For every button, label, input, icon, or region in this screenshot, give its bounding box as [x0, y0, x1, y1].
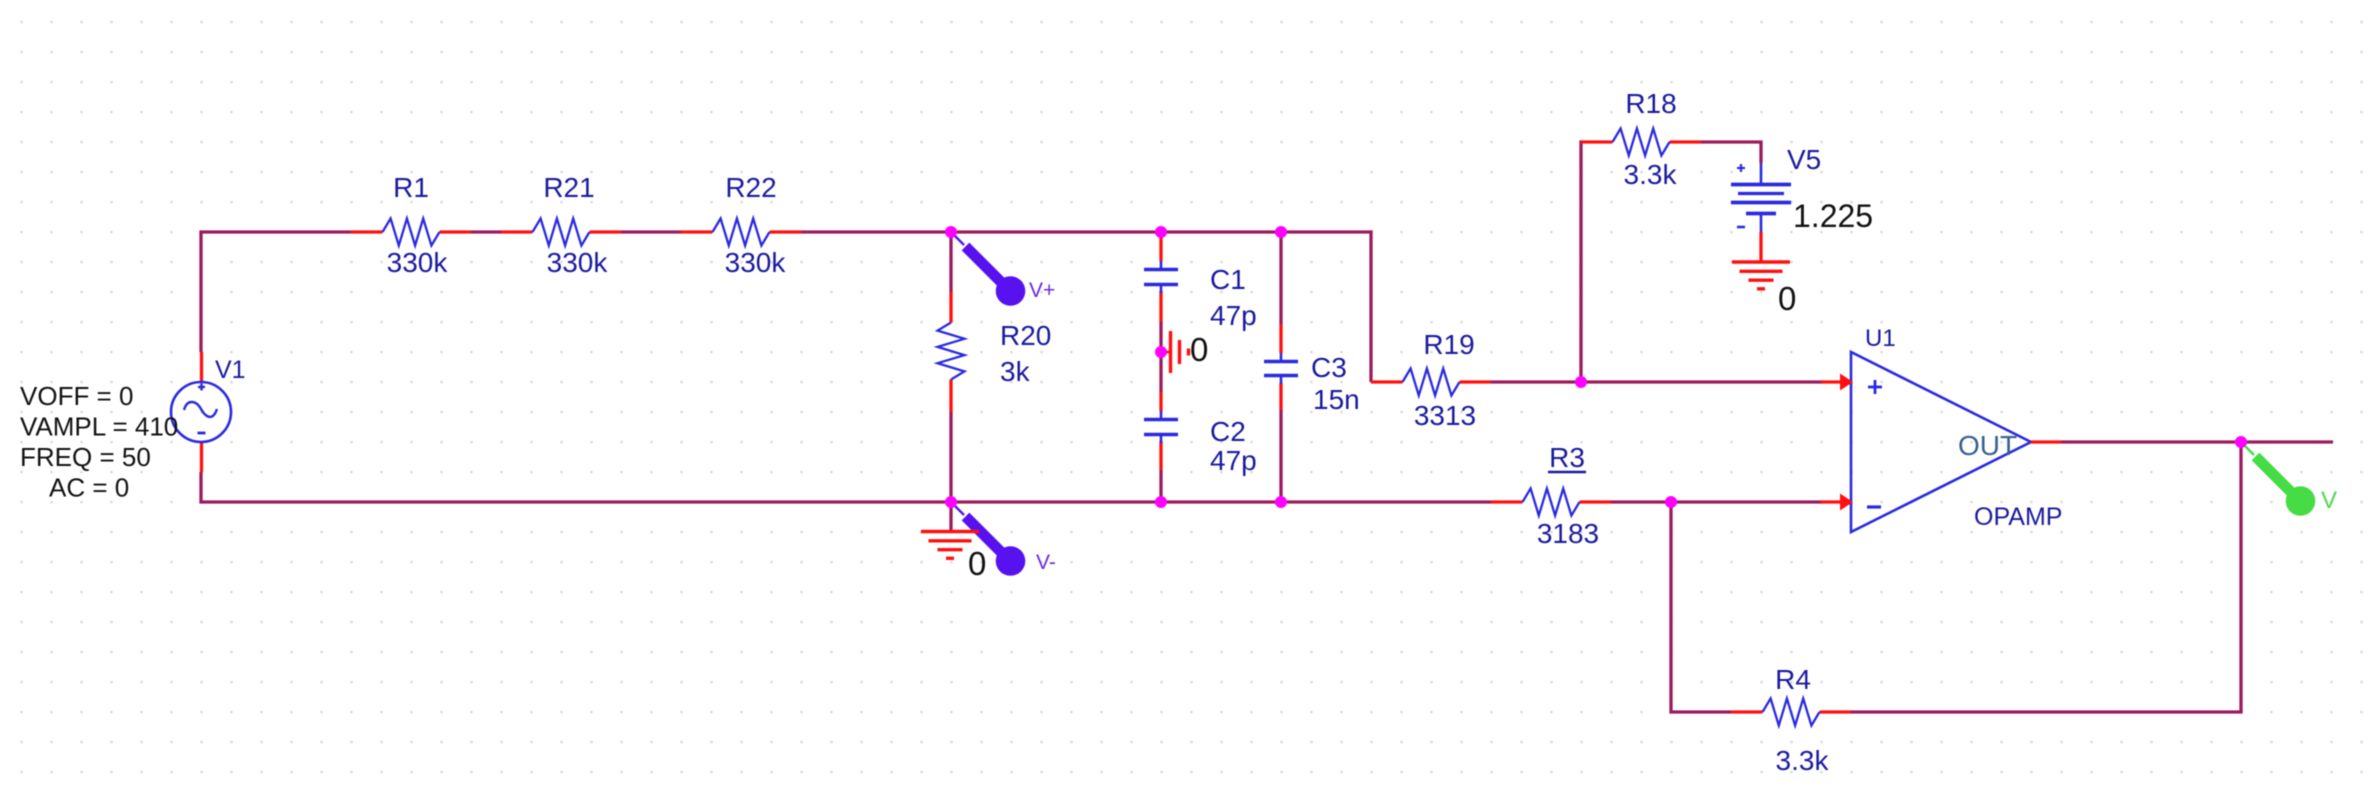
svg-text:OUT: OUT [1958, 430, 2017, 461]
capacitor C1 pins [1159, 232, 1162, 322]
label ground 0 V5 [1778, 280, 1796, 317]
node dot top C1 [1155, 226, 1167, 238]
label V+ [1029, 279, 1055, 302]
svg-text:C1: C1 [1210, 264, 1246, 295]
resistor R18 pins [1581, 140, 1701, 143]
source V1 minus [198, 432, 206, 435]
label ground 0 mid [1190, 331, 1208, 368]
wire R18 to V5 corner [1701, 140, 1763, 143]
ground V- [921, 532, 979, 559]
label ground 0 V- [968, 545, 986, 582]
battery V5 bottom pin [1760, 214, 1763, 263]
wire R21-R22 [621, 230, 681, 233]
label V5 [1787, 144, 1821, 175]
svg-text:3.3k: 3.3k [1624, 159, 1678, 190]
node dot mid C1C2 [1155, 346, 1167, 358]
ground node 0 rotated [1161, 331, 1189, 373]
value R4 3.3k [1776, 745, 1830, 776]
svg-text:R21: R21 [543, 172, 594, 203]
resistor R3 pins [1491, 500, 1611, 503]
svg-text:V-: V- [1036, 551, 1056, 574]
node dot bottom C2 [1155, 496, 1167, 508]
node dot bottom C3 [1275, 496, 1287, 508]
wire V1 bottom vertical [199, 472, 202, 504]
resistor R4 [1763, 699, 1820, 726]
pin name OUT [1958, 430, 2017, 461]
source V1 plus [198, 384, 205, 391]
label C3 [1311, 352, 1347, 383]
resistor R3 [1523, 489, 1580, 516]
label R22 [725, 172, 776, 203]
svg-text:VAMPL = 410: VAMPL = 410 [20, 412, 178, 442]
svg-text:R20: R20 [1000, 320, 1051, 351]
op-amp U1 plus [1868, 380, 1882, 394]
label R21 [543, 172, 594, 203]
capacitor C2 [1144, 411, 1178, 443]
resistor R20 body wire [949, 232, 952, 502]
wire node up to R18 [1579, 140, 1582, 382]
op-amp pin + arrow [1821, 374, 1853, 391]
svg-text:R19: R19 [1423, 329, 1474, 360]
svg-text:330k: 330k [387, 247, 449, 278]
label R19 [1423, 329, 1474, 360]
label OPAMP [1974, 503, 2062, 531]
resistor R21 [533, 219, 590, 246]
battery V5 plates [1731, 185, 1791, 214]
value R19 3313 [1414, 400, 1476, 431]
wire corner down to R19 [1369, 230, 1372, 382]
wire opamp out to end [2061, 440, 2333, 443]
node dot R3 [1665, 496, 1677, 508]
value C2 47p [1210, 445, 1257, 476]
wire corner to R4 [1671, 710, 1731, 713]
svg-text:U1: U1 [1865, 325, 1896, 352]
resistor R1 pins [351, 230, 471, 233]
capacitor C1 [1144, 261, 1178, 293]
svg-text:47p: 47p [1210, 300, 1257, 331]
battery V5 plus [1737, 164, 1745, 172]
label V- [1036, 551, 1056, 574]
wire gnd stub V- [949, 502, 952, 531]
value C1 47p [1210, 300, 1257, 331]
label R20 [1000, 320, 1051, 351]
value R22 330k [725, 247, 787, 278]
source V1 circle [171, 382, 231, 442]
value R1 330k [387, 247, 449, 278]
svg-text:R4: R4 [1775, 664, 1811, 695]
svg-text:330k: 330k [725, 247, 787, 278]
label R3 underlined [1548, 442, 1586, 473]
svg-text:FREQ = 50: FREQ = 50 [20, 442, 151, 472]
svg-text:47p: 47p [1210, 445, 1257, 476]
wire R19 to opamp+ [1491, 380, 1822, 383]
value R21 330k [547, 247, 609, 278]
op-amp output pin [2031, 440, 2061, 443]
value R18 3.3k [1624, 159, 1678, 190]
battery V5 minus [1737, 226, 1745, 229]
wire V1 top vertical [199, 232, 202, 352]
resistor R20 pins [949, 292, 952, 412]
svg-text:0: 0 [1190, 331, 1208, 368]
wire bottom rail [201, 500, 1491, 503]
wire C2 upper [1159, 352, 1162, 392]
svg-text:1.225: 1.225 [1793, 198, 1873, 234]
label R4 [1775, 664, 1811, 695]
wire C2 lower [1159, 470, 1162, 502]
value R3 3183 [1537, 518, 1599, 549]
svg-text:3313: 3313 [1414, 400, 1476, 431]
svg-text:R3: R3 [1549, 442, 1585, 473]
svg-text:C2: C2 [1210, 416, 1246, 447]
label V out [2321, 487, 2337, 514]
wire C3 upper [1279, 232, 1282, 324]
wire R4 to output corner [1851, 710, 2243, 713]
node dot bottom R20 [945, 496, 957, 508]
svg-text:OPAMP: OPAMP [1974, 503, 2062, 531]
node dot R19 [1575, 376, 1587, 388]
resistor R4 pins [1731, 710, 1851, 713]
label R1 [393, 172, 429, 203]
op-amp U1 body [1851, 352, 2031, 532]
wire R3 to opamp- [1611, 500, 1822, 503]
battery V5 top pin [1760, 163, 1763, 184]
label R18 [1625, 88, 1676, 119]
wire C3 lower [1279, 410, 1282, 502]
svg-text:AC = 0: AC = 0 [49, 473, 129, 503]
label U1 [1865, 325, 1896, 352]
value V5 1.225 [1793, 198, 1873, 234]
probe V- [951, 502, 1025, 576]
svg-text:R22: R22 [725, 172, 776, 203]
label V1 [215, 356, 246, 384]
op-amp pin - arrow [1821, 494, 1853, 511]
svg-text:330k: 330k [547, 247, 609, 278]
node dot top R20 [945, 226, 957, 238]
source V1 sine [184, 402, 217, 417]
resistor R20 [938, 323, 965, 380]
resistor R1 [383, 219, 440, 246]
node dot output [2235, 436, 2247, 448]
label C2 [1210, 416, 1246, 447]
wire output vertical [2239, 442, 2242, 712]
wire V5 top pin [1759, 142, 1762, 163]
wire C1 lower [1159, 322, 1162, 352]
wire node down to R4 row [1669, 502, 1672, 714]
svg-text:V+: V+ [1029, 279, 1055, 302]
wire R22 to C3 corner [801, 230, 1373, 233]
svg-text:VOFF = 0: VOFF = 0 [20, 381, 133, 411]
svg-text:R1: R1 [393, 172, 429, 203]
source V1 pins [200, 352, 203, 472]
value R20 3k [1000, 356, 1031, 387]
capacitor C2 pins [1159, 392, 1162, 470]
params V1 [20, 381, 178, 503]
resistor R18 [1613, 129, 1670, 156]
svg-text:15n: 15n [1313, 384, 1360, 415]
resistor R19 [1403, 369, 1460, 396]
resistor R22 pins [681, 230, 801, 233]
svg-text:3k: 3k [1000, 356, 1031, 387]
resistor R19 pins [1371, 380, 1491, 383]
label C1 [1210, 264, 1246, 295]
svg-text:0: 0 [968, 545, 986, 582]
probe V out [2241, 442, 2315, 516]
ground V5 [1732, 262, 1790, 289]
node dot top C3 [1275, 226, 1287, 238]
resistor R21 pins [501, 230, 621, 233]
svg-text:V5: V5 [1787, 144, 1821, 175]
probe V+ [951, 232, 1025, 306]
capacitor C3 pins [1279, 324, 1282, 410]
capacitor C3 [1264, 353, 1298, 384]
svg-text:3.3k: 3.3k [1776, 745, 1830, 776]
svg-text:3183: 3183 [1537, 518, 1599, 549]
wire top rail to R1 [199, 230, 351, 233]
svg-text:R18: R18 [1625, 88, 1676, 119]
svg-text:0: 0 [1778, 280, 1796, 317]
op-amp U1 minus [1867, 505, 1881, 508]
svg-text:C3: C3 [1311, 352, 1347, 383]
wire R1-R21 [471, 230, 501, 233]
svg-text:V1: V1 [215, 356, 246, 384]
resistor R22 [713, 219, 770, 246]
value C3 15n [1313, 384, 1360, 415]
svg-text:V: V [2321, 487, 2337, 514]
